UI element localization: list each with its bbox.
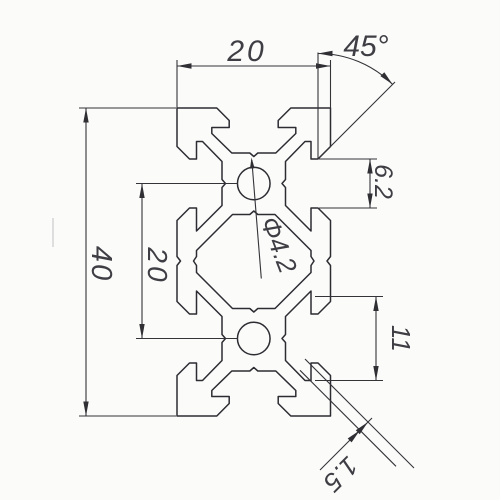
dimension 6.2: extension lines	[319, 159, 377, 208]
lower centre bore	[237, 322, 270, 355]
svg-text:20: 20	[142, 246, 173, 284]
dimension 40: arrowheads	[83, 108, 88, 416]
dimension 1.5: extension lines	[300, 359, 414, 470]
dimension 6.2: dimension line	[369, 159, 371, 208]
dimension 20 pitch: arrowheads	[139, 184, 144, 339]
dimension 45 deg: arc	[318, 54, 393, 85]
dimension 20 pitch: dimension line	[141, 184, 143, 339]
dimension 6.2: arrowheads	[367, 159, 372, 208]
dimension 11: arrowheads	[373, 297, 378, 381]
dimension 1.5: arrowheads	[348, 422, 368, 442]
svg-text:11: 11	[386, 325, 416, 352]
dimension 40: extension lines	[79, 108, 176, 416]
dimension 11: dimension line	[375, 297, 377, 381]
svg-text:6.2: 6.2	[369, 164, 397, 199]
dimension 40: dimension line	[85, 108, 87, 416]
dimension 20 pitch: extension lines	[136, 184, 238, 339]
dimension 1.5: dimension line	[320, 418, 372, 470]
dimension 45 deg: arc arrowheads	[318, 51, 393, 85]
dimension 45 deg: 45 degree ray (slot chamfer extended)	[318, 82, 395, 159]
svg-text:20: 20	[226, 35, 266, 68]
dimension dia 4.2: leader arrowhead	[250, 158, 255, 169]
dimension 45 deg: vertical ray	[318, 53, 395, 160]
svg-text:40: 40	[85, 246, 117, 282]
faint scan artifact line	[52, 218, 54, 247]
svg-text:45°: 45°	[343, 30, 388, 63]
central octagonal cavity	[194, 211, 315, 312]
dimension 20: extension lines	[177, 60, 331, 108]
dimension 20: arrowheads	[177, 63, 331, 68]
dimension 11: extension lines	[315, 297, 383, 381]
extrusion profile outer outline with six T-slots	[177, 108, 331, 416]
upper centre bore	[237, 167, 270, 200]
dimension dia 4.2: leader line	[252, 160, 261, 279]
dimension 20: dimension line	[177, 65, 331, 67]
